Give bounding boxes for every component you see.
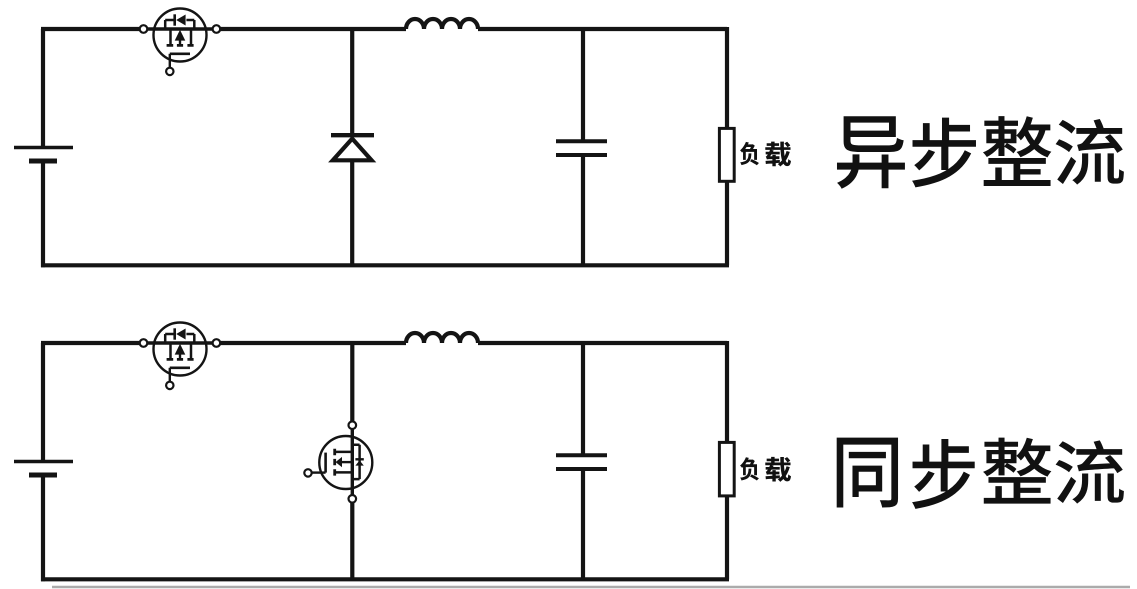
wire output cap branch: C1 down to bottom rail xyxy=(581,155,585,265)
label 负载 (load) for R2 xyxy=(740,457,791,482)
wire sync branch: switch node down to Q3 drain terminal xyxy=(350,343,354,422)
wire output cap branch: top rail down to C1 xyxy=(581,29,585,142)
wire bottom rail xyxy=(41,263,729,267)
wire top rail 2: inductor to output node and right rail down xyxy=(478,341,727,443)
wire top rail 2: battery+ up and right to Q2 source xyxy=(41,343,140,461)
wire top rail: battery+ up and right to Q1 source xyxy=(41,29,140,147)
wire top rail: inductor to output node and right rail down xyxy=(478,27,727,129)
diode D1 (freewheeling diode) xyxy=(331,135,374,160)
resistor R1 (load) xyxy=(719,128,734,181)
resistor R2 (load) xyxy=(719,442,734,496)
Q3 substrate arrow (filled, pointing left) + stem xyxy=(336,457,343,467)
wire load branch 2: R2 bottom to bottom rail xyxy=(725,495,729,579)
battery V1 xyxy=(14,148,73,162)
Q3 body-diode loop xyxy=(352,445,359,479)
wire load branch: R1 bottom to bottom rail xyxy=(725,181,729,265)
title 异步整流 (asynchronous rectification) xyxy=(837,116,1124,189)
transistor Q1 (high-side MOSFET switch) xyxy=(140,9,221,76)
wire output cap branch 2: C2 down to bottom rail xyxy=(581,469,585,579)
inductor L1 xyxy=(406,19,478,29)
transistor Q3 (synchronous rectifier MOSFET, replaces D1) xyxy=(304,421,372,502)
Q3 gate bar + gate lead xyxy=(324,453,327,473)
capacitor C1 xyxy=(556,141,607,155)
wire left rail 2: battery- down to bottom rail xyxy=(41,474,45,581)
Q3 channel wire through the body xyxy=(351,429,354,494)
battery V2 xyxy=(14,462,73,476)
wire top rail 2: Q2 drain to inductor (switch node at x=352) xyxy=(220,341,406,345)
transistor Q2 (high-side MOSFET switch) xyxy=(140,323,221,390)
title 同步整流 (synchronous rectification) xyxy=(837,438,1124,509)
bottom edge artifact line xyxy=(52,586,1130,588)
wire left rail: battery- down to bottom rail xyxy=(41,160,45,267)
Q3 channel contacts with feet xyxy=(335,452,353,473)
label 负载 (load) for R1 xyxy=(740,142,791,167)
wire output cap branch 2: top rail down to C2 xyxy=(581,343,585,456)
wire top rail: Q1 drain to inductor (switch node at x=352) xyxy=(220,27,406,31)
inductor L2 xyxy=(406,333,478,343)
wire sync branch: Q3 source terminal down to bottom rail xyxy=(350,503,354,580)
Q3 body diode: cathode bar + filled triangle pointing up xyxy=(355,458,363,460)
wire bottom rail 2 xyxy=(41,577,729,581)
capacitor C2 xyxy=(556,455,607,469)
wire freewheel branch: D1 anode down to bottom rail xyxy=(350,161,354,266)
wire freewheel branch: switch node down to D1 cathode xyxy=(350,29,354,134)
